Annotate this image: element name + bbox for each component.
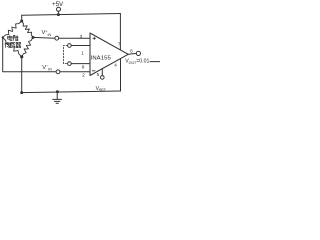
svg-text:V−IN: V−IN [42,64,52,71]
svg-text:2: 2 [82,72,85,77]
svg-text:1: 1 [81,51,84,56]
svg-text:3: 3 [80,34,83,39]
svg-text:V+IN: V+IN [42,29,52,36]
svg-text:8: 8 [82,65,85,70]
svg-text:VOUT=0.01: VOUT=0.01 [125,59,149,65]
svg-text:+5V: +5V [52,1,64,8]
svg-text:INA155: INA155 [91,56,112,62]
svg-text:5: 5 [97,72,100,77]
svg-text:7: 7 [118,42,121,47]
svg-text:4: 4 [114,62,117,67]
svg-text:6: 6 [130,48,133,53]
svg-text:VREF: VREF [96,86,106,92]
